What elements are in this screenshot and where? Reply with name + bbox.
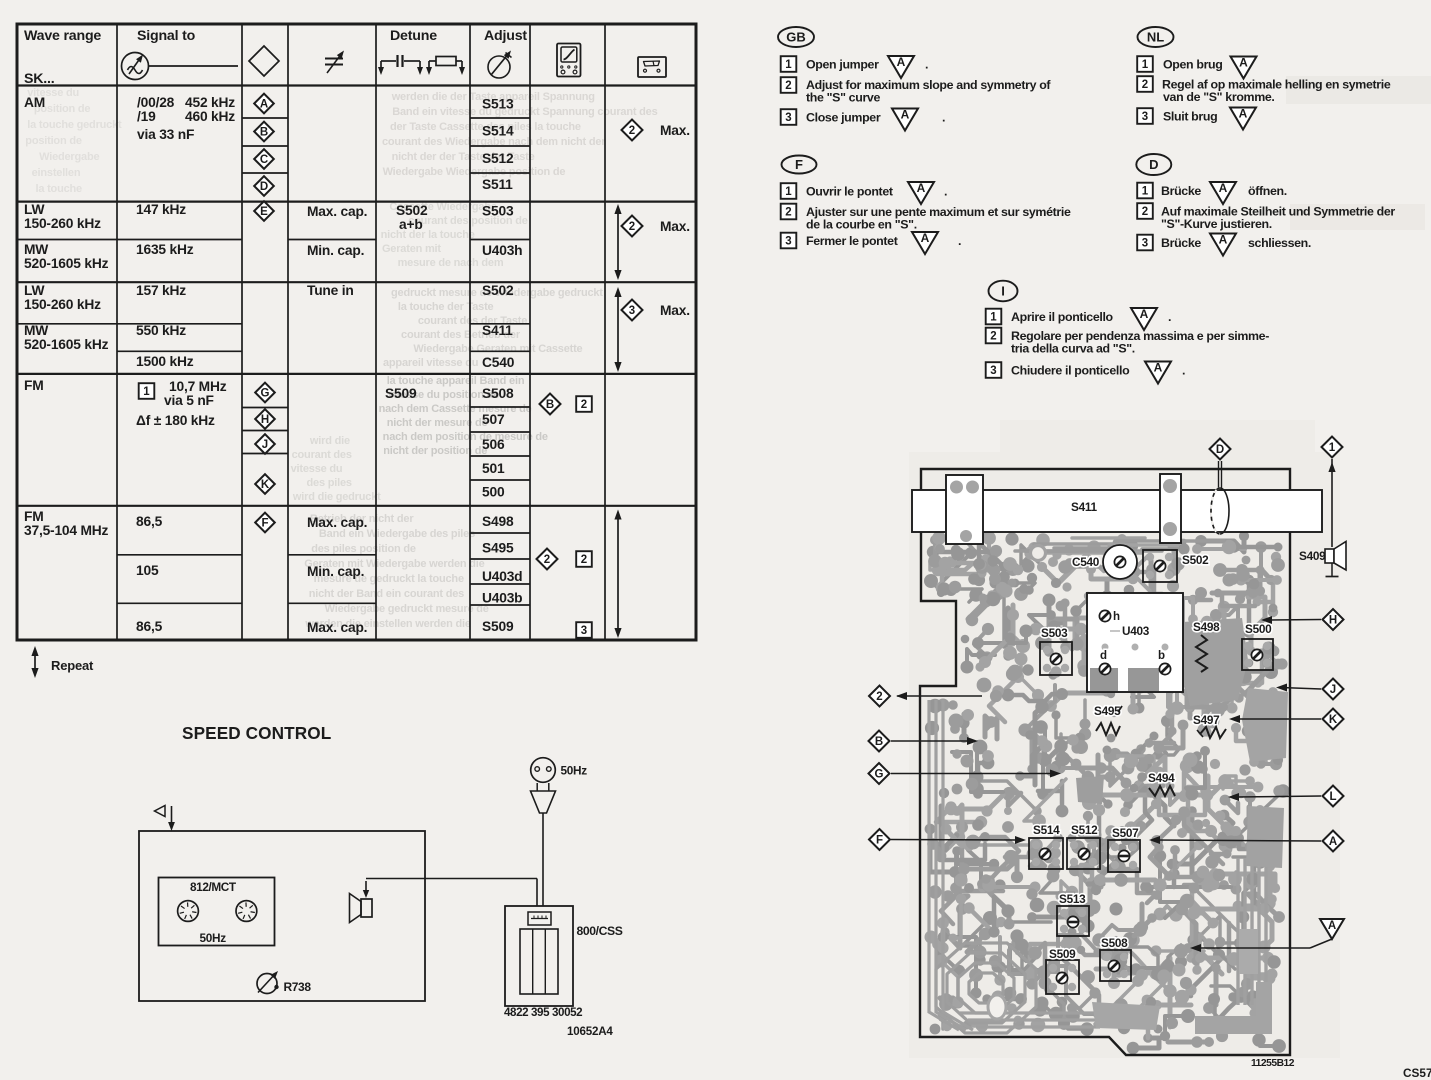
svg-text:la touche der Taste: la touche der Taste [398,301,494,313]
node diamond B with arrow [869,731,979,752]
svg-text:10,7 MHz: 10,7 MHz [169,379,227,394]
pulley bracket right [1160,474,1181,543]
svg-text:C: C [260,154,268,166]
svg-text:2: 2 [876,691,882,703]
svg-text:S411: S411 [482,323,513,338]
svg-text:Wiedergabe Wiedergabe position: Wiedergabe Wiedergabe position de [383,166,566,178]
svg-text:S513: S513 [482,97,514,112]
pcb copper traces [924,531,1290,1054]
trimmer S512 [1067,823,1100,869]
svg-text:S511: S511 [482,177,513,192]
svg-text:3: 3 [785,112,791,124]
svg-text:S502: S502 [396,203,428,218]
svg-text:.: . [925,58,928,72]
svg-text:.: . [944,185,947,199]
svg-text:A: A [1239,56,1248,70]
svg-text:506: 506 [482,437,505,452]
svg-text:LW: LW [24,283,45,298]
svg-text:Δf ± 180 kHz: Δf ± 180 kHz [136,413,215,428]
svg-text:Max. cap.: Max. cap. [307,204,367,219]
svg-text:S507: S507 [1112,826,1139,840]
svg-text:Band ein vitesse du gedruckt S: Band ein vitesse du gedruckt Spannung co… [392,106,657,118]
node diamond K with arrow [1229,709,1344,730]
svg-text:A: A [897,55,906,69]
svg-text:S503: S503 [482,204,514,219]
svg-text:105: 105 [136,563,159,578]
svg-text:la touche gedruckt: la touche gedruckt [27,119,122,131]
svg-text:S508: S508 [1101,936,1128,950]
svg-text:Fermer le pontet: Fermer le pontet [806,234,898,248]
svg-text:U403: U403 [1122,624,1150,638]
svg-text:2: 2 [629,221,635,233]
table header texts [24,28,527,87]
detune resistor symbol [426,57,465,76]
svg-text:Aprire il ponticello: Aprire il ponticello [1011,310,1114,324]
NL instruction block [1137,27,1391,130]
svg-text:G: G [875,769,884,781]
svg-text:S495: S495 [1094,704,1121,718]
header diamond symbol [249,46,279,76]
svg-text:wird die gedruckt: wird die gedruckt [292,491,381,503]
svg-text:NL: NL [1147,30,1164,45]
svg-text:157 kHz: 157 kHz [136,283,186,298]
cap setting texts [307,204,367,635]
svg-text:1: 1 [1142,186,1149,198]
resistor S495 [1094,704,1122,735]
svg-text:452 kHz: 452 kHz [185,95,235,110]
svg-text:J: J [1330,684,1336,696]
svg-text:Brücke: Brücke [1161,236,1201,250]
pcb board outline [920,469,1290,1055]
adjust column texts [482,97,522,635]
speaker in speed control [350,894,373,923]
svg-text:J: J [262,439,268,451]
svg-text:3: 3 [1142,111,1148,123]
svg-text:Tune in: Tune in [307,283,354,298]
svg-text:Wave range: Wave range [24,28,101,44]
svg-text:Min. cap.: Min. cap. [307,564,364,579]
svg-text:S411: S411 [1071,500,1097,514]
node triangle A with arrow [1190,919,1344,952]
svg-text:B: B [546,399,554,411]
adjust point diamonds A-K [254,94,275,533]
svg-text:2: 2 [785,207,791,219]
svg-text:Sluit brug: Sluit brug [1163,110,1217,124]
detune column texts [385,203,428,401]
svg-text:2: 2 [581,399,587,411]
svg-text:S512: S512 [1071,823,1098,837]
resistor S498 [1193,620,1220,672]
svg-text:G: G [261,388,270,400]
speed control chassis box [139,831,425,1001]
svg-text:Brücke: Brücke [1161,184,1201,198]
trimmer capacitor symbol [325,51,344,74]
svg-text:Min. cap.: Min. cap. [307,243,364,258]
svg-text:Max.: Max. [660,303,690,318]
svg-text:150-260 kHz: 150-260 kHz [24,297,101,312]
svg-text:H: H [1329,615,1337,627]
node diamond D with tuning tool [1210,439,1231,535]
svg-text:R738: R738 [284,980,312,994]
svg-text:S409: S409 [1299,549,1326,563]
svg-text:a+b: a+b [399,217,423,232]
svg-text:Ouvrir le pontet: Ouvrir le pontet [806,185,893,199]
node diamond G with arrow [869,763,1062,784]
svg-text:3: 3 [629,305,635,317]
svg-text:86,5: 86,5 [136,514,163,529]
svg-text:Wiedergabe Geraten mit Cassett: Wiedergabe Geraten mit Cassette [413,343,582,355]
repeat indication columns [537,120,690,639]
svg-text:"S"-Kurve justieren.: "S"-Kurve justieren. [1161,217,1272,231]
svg-text:E: E [260,206,268,218]
svg-text:500: 500 [482,485,505,500]
svg-text:2: 2 [629,125,635,137]
svg-text:nach dem Cassette mesure de: nach dem Cassette mesure de [379,403,532,415]
svg-text:501: 501 [482,461,505,476]
svg-text:D: D [1216,444,1224,456]
speed control unit 800/CSS [505,906,623,1006]
entry arrow with open triangle [155,806,175,832]
trimmer S514 [1029,823,1063,869]
svg-text:A: A [921,231,930,245]
svg-text:147 kHz: 147 kHz [136,202,186,217]
svg-text:Wiedergabe: Wiedergabe [39,151,99,163]
svg-text:S498: S498 [1193,620,1220,634]
svg-text:L: L [1329,791,1336,803]
svg-text:AM: AM [24,95,45,110]
svg-text:50Hz: 50Hz [200,931,227,945]
svg-text:Signal to: Signal to [137,28,196,44]
mains plug 50Hz [531,758,588,906]
svg-text:50Hz: 50Hz [561,764,588,778]
dial bar S411 [912,490,1322,532]
svg-text:11255B12: 11255B12 [1251,1058,1295,1069]
svg-text:MW: MW [24,242,49,257]
signal column texts [136,95,235,634]
svg-text:A: A [917,181,926,195]
node diamond H with arrow [1261,609,1344,630]
svg-text:FM: FM [24,378,44,393]
svg-text:S503: S503 [1041,626,1068,640]
svg-text:1500 kHz: 1500 kHz [136,354,194,369]
svg-text:.: . [958,234,961,248]
svg-text:A: A [260,99,268,111]
svg-text:37,5-104 MHz: 37,5-104 MHz [24,523,109,538]
svg-text:A: A [1329,836,1337,848]
svg-text:F: F [795,157,803,172]
svg-text:SK...: SK... [24,71,55,87]
speaker S409 [1299,542,1346,577]
svg-text:4822 395 30052: 4822 395 30052 [504,1006,582,1019]
svg-text:nicht der la touche: nicht der la touche [381,229,475,241]
svg-text:the "S" curve: the "S" curve [806,91,880,105]
svg-text:nicht der mesure de: nicht der mesure de [387,417,488,429]
svg-text:S512: S512 [482,151,514,166]
svg-text:S514: S514 [482,124,514,139]
svg-text:S495: S495 [482,541,514,556]
svg-text:S508: S508 [482,386,514,401]
svg-text:3: 3 [581,625,587,637]
pulley bracket left [946,475,983,544]
svg-text:wird die: wird die [309,435,350,447]
trimmer S503 [1040,626,1072,675]
resistor S494 [1148,771,1175,796]
svg-text:Max. cap.: Max. cap. [307,620,367,635]
svg-text:/19: /19 [137,109,156,124]
svg-text:b: b [1158,650,1165,662]
svg-text:des piles: des piles [307,477,352,489]
meter icon [557,44,581,77]
svg-text:I: I [1001,284,1005,299]
svg-text:tria della curva ad "S".: tria della curva ad "S". [1011,342,1135,356]
svg-text:812/MCT: 812/MCT [190,880,237,894]
trimmer S508 [1100,936,1131,981]
svg-text:LW: LW [24,202,45,217]
svg-text:position de: position de [25,135,82,147]
svg-text:550 kHz: 550 kHz [136,323,186,338]
svg-text:appareil vitesse du: appareil vitesse du [383,357,478,369]
svg-text:mesure de nach dem: mesure de nach dem [398,257,504,269]
svg-text:3: 3 [785,236,791,248]
potentiometer R738 [257,971,311,994]
svg-text:3: 3 [1142,238,1148,250]
svg-text:.: . [1168,310,1171,324]
svg-text:Max. cap.: Max. cap. [307,515,367,530]
svg-text:Max.: Max. [660,219,690,234]
svg-text:10652A4: 10652A4 [567,1025,613,1038]
svg-text:86,5: 86,5 [136,619,163,634]
wire from speaker to supply [363,879,537,907]
svg-text:d: d [1100,650,1107,662]
node diamond J with arrow [1276,679,1344,700]
svg-text:öffnen.: öffnen. [1248,184,1287,198]
svg-text:Open brug: Open brug [1163,58,1223,72]
svg-text:F: F [261,518,268,530]
svg-text:2: 2 [1142,206,1148,218]
svg-text:via 5 nF: via 5 nF [164,393,214,408]
svg-text:F: F [876,835,883,847]
signal generator symbol [122,53,149,80]
boxed 1 in FM row [139,383,155,399]
svg-text:520-1605 kHz: 520-1605 kHz [24,256,109,271]
svg-text:K: K [1329,714,1338,726]
svg-text:la touche: la touche [35,183,82,195]
svg-text:C540: C540 [1072,555,1100,569]
svg-text:via 33 nF: via 33 nF [137,127,194,142]
svg-text:nicht der Band ein courant des: nicht der Band ein courant des [309,588,464,600]
svg-text:A: A [1140,307,1149,321]
GB instruction block [778,27,1051,131]
svg-text:1635 kHz: 1635 kHz [136,242,194,257]
svg-text:schliessen.: schliessen. [1248,236,1311,250]
repeat arrow below table [31,646,94,678]
svg-text:A: A [1239,107,1248,121]
trimmer S502 [1143,550,1209,582]
svg-text:A: A [1219,233,1228,247]
svg-text:GB: GB [786,30,806,45]
cassette deck 812/MCT [159,878,275,946]
node diamond 2 with arrow [869,686,982,707]
svg-text:A: A [901,108,910,122]
wave range column texts [24,95,109,538]
svg-text:Adjust: Adjust [484,28,527,44]
svg-text:B: B [875,736,883,748]
svg-text:Max.: Max. [660,123,690,138]
svg-text:MW: MW [24,323,49,338]
svg-text:van de "S" kromme.: van de "S" kromme. [1163,90,1275,104]
svg-text:vitesse du: vitesse du [291,463,343,475]
trimmer S500 [1242,622,1273,670]
svg-text:1: 1 [1329,442,1336,454]
node diamond L with arrow [1228,786,1344,807]
svg-text:Repeat: Repeat [51,658,94,673]
node diamond A with arrow [1149,831,1344,852]
detune capacitor symbol [378,55,423,75]
svg-text:B: B [260,127,268,139]
capacitor C540 [1072,545,1137,579]
svg-text:800/CSS: 800/CSS [577,924,623,938]
svg-text:2: 2 [544,554,550,566]
trimmer S507 [1108,826,1140,872]
I instruction block [986,281,1270,384]
F instruction block [781,156,1071,255]
svg-text:S509: S509 [1049,947,1076,961]
svg-text:1: 1 [785,59,792,71]
svg-text:U403b: U403b [482,591,522,606]
svg-text:2: 2 [785,80,791,92]
svg-text:Chiudere il ponticello: Chiudere il ponticello [1011,364,1130,378]
svg-text:A: A [1154,361,1163,375]
svg-text:Wiedergabe gedruckt mesure de: Wiedergabe gedruckt mesure de [325,603,489,615]
svg-text:S498: S498 [482,514,514,529]
alignment table frame [17,24,696,640]
svg-text:/00/28: /00/28 [137,95,175,110]
svg-text:h: h [1113,611,1120,623]
svg-text:des piles position de: des piles position de [311,543,416,555]
svg-text:S514: S514 [1033,823,1060,837]
svg-text:SPEED CONTROL: SPEED CONTROL [182,723,331,743]
svg-text:D: D [1149,157,1158,172]
cassette icon [638,57,666,77]
svg-text:K: K [261,479,270,491]
svg-text:3: 3 [990,365,996,377]
trimmer S513 [1057,892,1089,936]
svg-text:D: D [260,181,268,193]
svg-text:1: 1 [990,312,997,324]
svg-text:520-1605 kHz: 520-1605 kHz [24,337,109,352]
svg-text:.: . [1182,364,1185,378]
resistor S497 [1193,713,1226,738]
svg-text:A: A [1328,920,1336,932]
svg-text:S502: S502 [1182,553,1209,567]
svg-text:1: 1 [785,186,792,198]
svg-text:Close jumper: Close jumper [806,111,881,125]
svg-text:507: 507 [482,412,505,427]
svg-text:S509: S509 [385,386,417,401]
D instruction block [1136,154,1395,256]
svg-text:S494: S494 [1148,771,1175,785]
svg-text:Open jumper: Open jumper [806,58,879,72]
node diamond 1 with wire to S409 [1322,437,1343,548]
svg-text:1: 1 [1142,59,1149,71]
svg-text:.: . [942,111,945,125]
svg-text:1: 1 [143,386,150,398]
svg-text:460 kHz: 460 kHz [185,109,235,124]
svg-text:Detune: Detune [390,28,437,44]
svg-text:S500: S500 [1245,622,1272,636]
svg-text:U403d: U403d [482,569,522,584]
scan background patches [909,452,1340,1058]
svg-text:courant des: courant des [292,449,352,461]
svg-text:A: A [1219,181,1228,195]
svg-text:U403h: U403h [482,243,522,258]
svg-text:CS57: CS57 [1403,1066,1431,1080]
svg-text:2: 2 [1142,79,1148,91]
svg-text:S509: S509 [482,619,514,634]
svg-text:S502: S502 [482,283,514,298]
svg-text:H: H [261,414,269,426]
svg-text:C540: C540 [482,355,515,370]
adjust screwdriver symbol [488,51,512,79]
svg-text:FM: FM [24,509,44,524]
svg-text:2: 2 [990,331,996,343]
IC U403 [1087,593,1183,692]
trimmer S509 [1046,947,1079,994]
svg-text:S513: S513 [1059,892,1086,906]
node diamond F with arrow [869,829,1026,850]
svg-text:Geraten mit: Geraten mit [382,243,441,255]
svg-text:einstellen: einstellen [32,167,81,179]
svg-text:2: 2 [581,554,587,566]
svg-text:de la courbe en "S".: de la courbe en "S". [806,218,917,232]
wire from generator [149,65,239,67]
svg-text:150-260 kHz: 150-260 kHz [24,216,101,231]
